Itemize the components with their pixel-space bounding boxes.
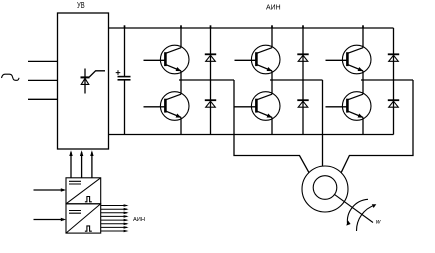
diode VD2 (leg 1 lower) xyxy=(205,100,216,107)
junction node on DC+ rail at leg 3 transistor xyxy=(362,25,364,28)
gate pulse arrow 2 to UV xyxy=(80,150,83,178)
junction node on DC+ rail at capacitor xyxy=(124,25,126,28)
wire: AC input phase 2 xyxy=(28,79,58,81)
svg-text:w: w xyxy=(376,219,382,226)
control box 2 pulse symbol xyxy=(85,226,92,231)
transistor VT4 (leg 2 lower) xyxy=(235,92,281,121)
AC source symbol ~ xyxy=(2,74,20,80)
diode VD5 (leg 3 upper) xyxy=(388,54,399,61)
control box 1 diagonal xyxy=(66,178,101,204)
svg-text:АИН: АИН xyxy=(266,2,281,11)
transistor VT2 (leg 1 lower) xyxy=(144,92,190,121)
transistor VT6 (leg 3 lower) xyxy=(326,92,372,121)
wire: leg 1 collector drop xyxy=(180,28,182,48)
arrowhead on outer rotation arc xyxy=(372,204,377,208)
transistor VT3 (leg 2 upper) xyxy=(235,45,281,74)
wire: leg 2 emitter to DC- rail xyxy=(271,117,273,134)
gate pulse arrows to AIN (comb of 8) xyxy=(101,206,127,232)
wire: leg 1 midpoint vertical xyxy=(180,71,182,94)
motor shaft xyxy=(335,195,373,223)
diode VD6 (leg 3 lower) xyxy=(388,100,399,107)
wire: leg 3 emitter to DC- rail xyxy=(362,117,364,134)
wire: negative DC rail xyxy=(109,134,394,136)
rotation arc outer xyxy=(356,205,375,231)
control box 2 DC symbol = xyxy=(69,211,81,214)
svg-text:АИН: АИН xyxy=(133,217,145,223)
wire: phase C output to motor xyxy=(341,80,413,172)
wire: leg 1 freewheel diode branch xyxy=(210,28,212,135)
transistor VT5 (leg 3 upper) xyxy=(326,45,372,74)
wire: AC input phase 1 xyxy=(28,60,58,62)
junction node on DC+ rail at leg 1 transistor xyxy=(180,25,182,28)
wire: leg 1 emitter to DC- rail xyxy=(180,117,182,134)
control unit box 2 (inverter controller) xyxy=(66,204,101,233)
control box 1 DC symbol = xyxy=(69,181,81,184)
gate pulse arrow 1 to UV xyxy=(69,150,72,178)
capacitor C (DC link) xyxy=(116,28,131,135)
control box 1 pulse symbol xyxy=(85,197,92,202)
wire: AC input phase 3 xyxy=(28,98,58,100)
thyristor symbol inside UV block xyxy=(81,69,106,94)
svg-text:УВ: УВ xyxy=(77,1,85,10)
diode VD4 (leg 2 lower) xyxy=(297,100,308,107)
control box 2 diagonal xyxy=(66,204,101,233)
diode VD3 (leg 2 upper) xyxy=(297,54,308,61)
wire: leg 3 midpoint vertical xyxy=(362,71,364,94)
wire: leg 2 collector drop xyxy=(271,28,273,48)
wire: leg 2 midpoint vertical xyxy=(271,71,273,94)
wire: leg 3 freewheel diode branch xyxy=(393,28,395,135)
control input arrow to box 1 xyxy=(34,188,67,191)
wire: leg 3 collector drop xyxy=(362,28,364,48)
rectifier block UV xyxy=(58,13,109,149)
wire: leg 2 phase rail xyxy=(270,79,323,81)
motor rotor circle xyxy=(313,176,337,200)
wire: positive DC rail xyxy=(109,27,394,29)
wire: phase A output to motor xyxy=(234,80,309,172)
diode VD1 (leg 1 upper) xyxy=(205,54,216,61)
wire: leg 2 freewheel diode branch xyxy=(302,28,304,135)
arrowhead on inner rotation arc xyxy=(346,220,350,225)
control unit box 1 (rectifier controller) xyxy=(66,178,101,204)
wire: phase B output to motor xyxy=(322,80,324,166)
wire: leg 3 phase rail xyxy=(361,79,413,81)
junction node on DC+ rail at leg 2 transistor xyxy=(271,25,273,28)
transistor VT1 (leg 1 upper) xyxy=(144,45,190,74)
motor M stator circle xyxy=(302,166,348,212)
arrowheads of AIN comb xyxy=(124,204,129,232)
wire: leg 1 phase rail xyxy=(179,79,234,81)
junction node on DC+ rail at leg 1 diode xyxy=(210,25,212,28)
junction node on DC+ rail at leg 2 diode xyxy=(302,25,304,28)
control input arrow to box 2 xyxy=(34,218,67,221)
rotation arc inner xyxy=(347,199,368,224)
gate pulse arrow 3 to UV xyxy=(90,150,93,178)
